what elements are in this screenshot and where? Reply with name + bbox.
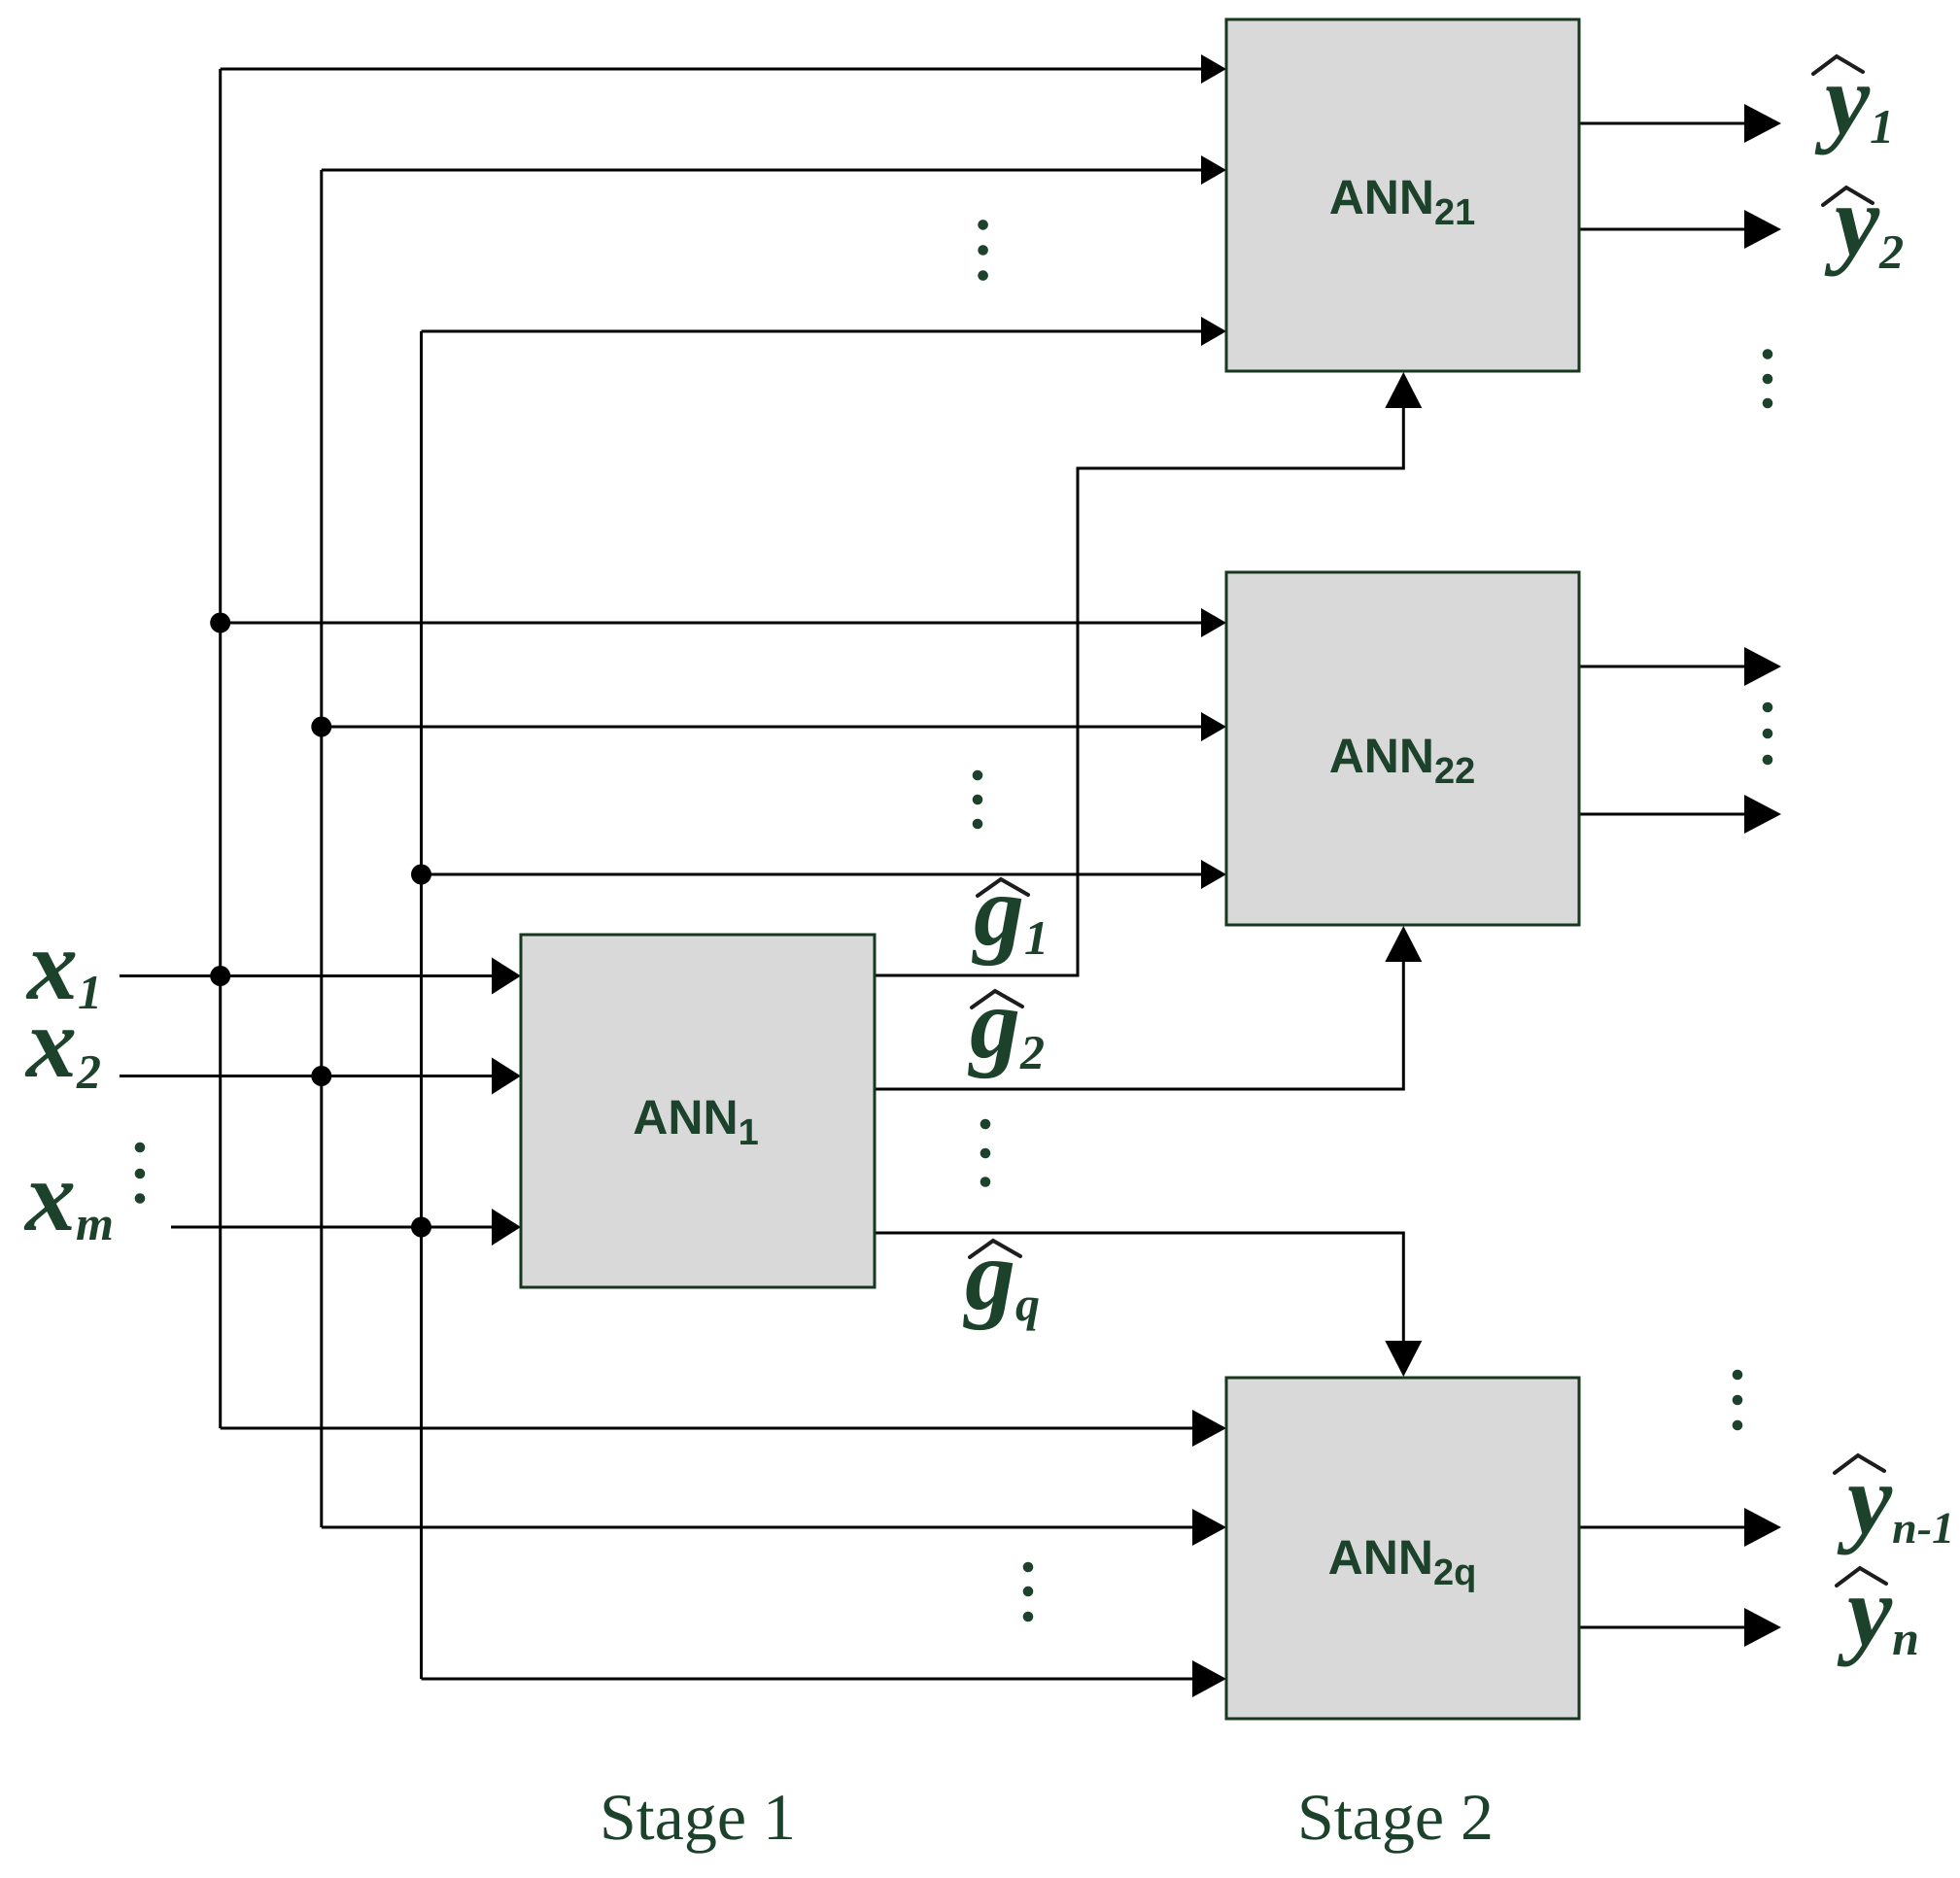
wire ANN22 output 1 xyxy=(1579,666,1745,668)
arrowhead ANN2q output 1 xyxy=(1744,1508,1781,1547)
label yn-1 hat xyxy=(1835,1455,1884,1473)
wire ANN22 output 2 xyxy=(1579,813,1745,816)
node dots left of ANN2q input 3 xyxy=(1023,1562,1034,1573)
svg-text:Stage 1: Stage 1 xyxy=(600,1780,796,1854)
wire bus3 vertical xm-feed xyxy=(420,331,423,1679)
wire ANN21 input 2 xyxy=(322,169,1203,172)
arrowhead ANN21 input 3 xyxy=(1201,317,1226,346)
wire x2 input xyxy=(120,1075,494,1077)
label yn hat xyxy=(1837,1568,1886,1586)
BOXES xyxy=(521,19,1579,1719)
arrowhead x2 into ANN1 xyxy=(492,1058,521,1095)
arrowhead ANN21 input 1 xyxy=(1201,54,1226,84)
node dots right of ANN2q top xyxy=(1733,1370,1743,1381)
wire ANN22 input 1 xyxy=(221,622,1203,625)
node dots left of ANN22 input 3 xyxy=(973,770,983,781)
node dots between x2 and xm xyxy=(135,1143,146,1153)
arrowhead ANN22 output 2 xyxy=(1744,795,1781,834)
node dots between ANN21 inputs xyxy=(978,220,988,230)
arrowhead ANN2q input 2 xyxy=(1192,1509,1226,1546)
wire ANN2q output 2 xyxy=(1579,1626,1745,1629)
wire ANN21 input 3 xyxy=(422,330,1204,333)
block ANN2q xyxy=(1226,1378,1579,1719)
junction bus1 x1 xyxy=(210,966,230,986)
wire ANN2q input 1 xyxy=(221,1427,1203,1430)
wire xm input xyxy=(171,1226,494,1229)
wire bus1 vertical x1-feed xyxy=(219,69,222,1428)
arrowhead ANN21 output 1 xyxy=(1744,104,1781,143)
arrowhead x1 into ANN1 xyxy=(492,958,521,995)
wire ANN2q input 2 xyxy=(322,1526,1203,1529)
arrowhead g1 up into ANN21 xyxy=(1385,372,1422,408)
node dots between g2 and gq xyxy=(980,1119,991,1130)
label g2 hat xyxy=(972,991,1022,1007)
junction bus2 ANN22-in2 xyxy=(311,717,331,737)
arrowhead ANN22 input 1 xyxy=(1201,608,1226,637)
junction bus3 xm xyxy=(411,1217,431,1238)
wire ANN21 input 1 xyxy=(221,68,1203,71)
junction bus2 x2 xyxy=(311,1066,331,1086)
wire bus2 vertical x2-feed xyxy=(320,170,323,1527)
wire ANN22 input 2 xyxy=(322,726,1203,729)
wire g1 from ANN1 to ANN21 xyxy=(875,408,1403,975)
arrowhead ANN2q input 3 xyxy=(1192,1660,1226,1697)
OUTPUT LABELS xyxy=(1813,44,1954,1667)
JUNCTION DOTS xyxy=(210,613,431,1238)
wire ANN2q input 3 xyxy=(422,1678,1204,1681)
ARROWHEADS xyxy=(492,54,1781,1697)
arrowhead gq down into ANN2q xyxy=(1385,1341,1422,1377)
junction bus3 ANN22-in3 xyxy=(411,865,431,885)
block ANN1 xyxy=(521,935,875,1287)
label y2 hat xyxy=(1823,188,1873,205)
arrowhead ANN21 input 2 xyxy=(1201,155,1226,185)
arrowhead xm into ANN1 xyxy=(492,1209,521,1246)
arrowhead ANN2q output 2 xyxy=(1744,1608,1781,1647)
arrowhead ANN2q input 1 xyxy=(1192,1410,1226,1447)
wire x1 input xyxy=(120,974,494,977)
wire ANN21 output 2 xyxy=(1579,228,1745,231)
junction bus1 ANN22-in1 xyxy=(210,613,230,633)
INPUT LABELS xyxy=(23,909,114,1252)
arrowhead ANN22 input 2 xyxy=(1201,712,1226,741)
wire ANN22 input 3 xyxy=(422,873,1204,876)
arrowhead ANN22 input 3 xyxy=(1201,860,1226,889)
VERTICAL ELLIPSES (green dots) xyxy=(135,220,1773,1622)
arrowhead ANN22 output 1 xyxy=(1744,647,1781,686)
label g1 hat xyxy=(978,879,1028,896)
arrowhead g2 up into ANN22 xyxy=(1385,926,1422,962)
G LABELS xyxy=(963,855,1049,1331)
label gq hat xyxy=(970,1241,1020,1257)
wire ANN21 output 1 xyxy=(1579,122,1745,125)
wire ANN2q output 1 xyxy=(1579,1526,1745,1529)
block ANN21 xyxy=(1226,19,1579,371)
STAGE LABELS xyxy=(600,1780,1494,1854)
wire gq from ANN1 to ANN2q xyxy=(875,1233,1403,1341)
arrowhead ANN21 output 2 xyxy=(1744,210,1781,249)
block ANN22 xyxy=(1226,572,1579,925)
svg-text:Stage 2: Stage 2 xyxy=(1297,1780,1494,1854)
wire g2 from ANN1 to ANN22 xyxy=(875,962,1403,1089)
node dots below y2 xyxy=(1763,349,1773,359)
BOX LABELS xyxy=(633,170,1476,1593)
label y1 hat xyxy=(1813,56,1863,74)
node dots between ANN22 outputs xyxy=(1763,702,1773,713)
